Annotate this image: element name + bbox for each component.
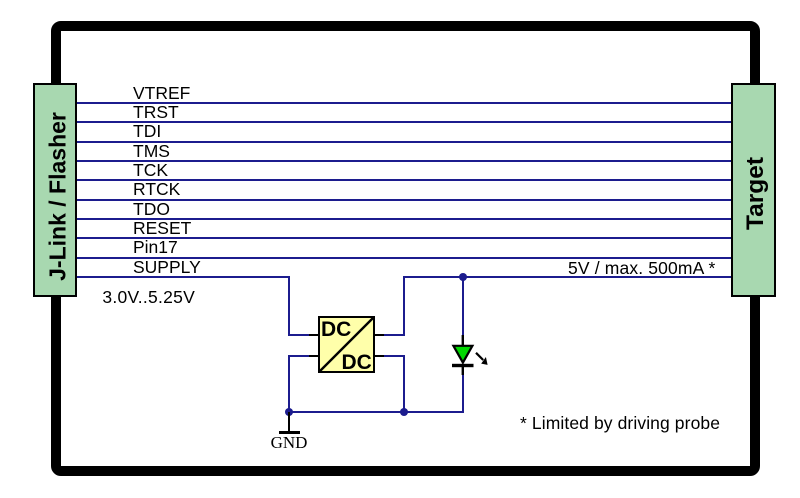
label TDI — [133, 123, 161, 141]
junction dot right ground — [400, 408, 408, 416]
DC/DC pin stub left upper — [309, 334, 318, 336]
wire DC/DC output bottom horizontal — [375, 355, 405, 357]
wire 5V output line (riser to Target) — [403, 276, 731, 278]
wire SUPPLY (from J-Link to drop) — [77, 276, 289, 278]
DC/DC label DC top — [321, 319, 351, 340]
label TCK — [133, 162, 168, 180]
wire DC/DC input top horizontal — [288, 334, 319, 336]
wire TCK — [77, 179, 731, 181]
wire DC/DC input bottom horizontal — [288, 355, 319, 357]
wire Pin17 — [77, 257, 731, 259]
label TRST — [133, 104, 179, 122]
wire LED branch upper vertical — [462, 276, 464, 340]
wire output riser vertical — [403, 276, 405, 336]
DC/DC pin stub right lower — [375, 355, 384, 357]
wire TRST — [77, 121, 731, 123]
label SUPPLY — [133, 259, 201, 277]
label VTREF — [133, 85, 190, 103]
footnote: * Limited by driving probe — [520, 415, 720, 433]
wire DC/DC output top horizontal — [375, 334, 405, 336]
note 3.0V..5.25V — [102, 289, 195, 307]
wire VTREF — [77, 102, 731, 104]
J-Link / Flasher label — [33, 83, 78, 297]
label TMS — [133, 143, 170, 161]
note 5V / max. 500mA * — [568, 260, 715, 278]
wire left ground vertical — [288, 355, 290, 413]
DC/DC pin stub right upper — [375, 334, 384, 336]
label RESET — [133, 220, 191, 238]
DC/DC diagonal — [318, 316, 375, 373]
J-Link / Flasher connector box — [33, 83, 78, 297]
DC/DC pin stub left lower — [309, 355, 318, 357]
wire RESET — [77, 237, 731, 239]
wire supply drop vertical — [288, 276, 290, 335]
Target label — [731, 83, 776, 297]
wire TDO — [77, 218, 731, 220]
label RTCK — [133, 181, 180, 199]
wire RTCK — [77, 199, 731, 201]
wire LED branch lower vertical — [462, 370, 464, 413]
wire TMS — [77, 160, 731, 162]
DC/DC converter U1 — [318, 316, 375, 373]
LED D1 — [440, 330, 500, 380]
junction dot LED tap — [459, 273, 467, 281]
label TDO — [133, 201, 170, 219]
ground bar — [279, 431, 300, 434]
label Pin17 — [133, 239, 178, 257]
wire right ground drop vertical — [403, 355, 405, 413]
wire ground rail — [288, 411, 464, 413]
Target connector box — [731, 83, 776, 297]
wire TDI — [77, 141, 731, 143]
DC/DC label DC bottom — [342, 352, 372, 373]
junction dot left ground — [285, 408, 293, 416]
ground stub — [288, 412, 290, 431]
label GND — [267, 434, 311, 451]
